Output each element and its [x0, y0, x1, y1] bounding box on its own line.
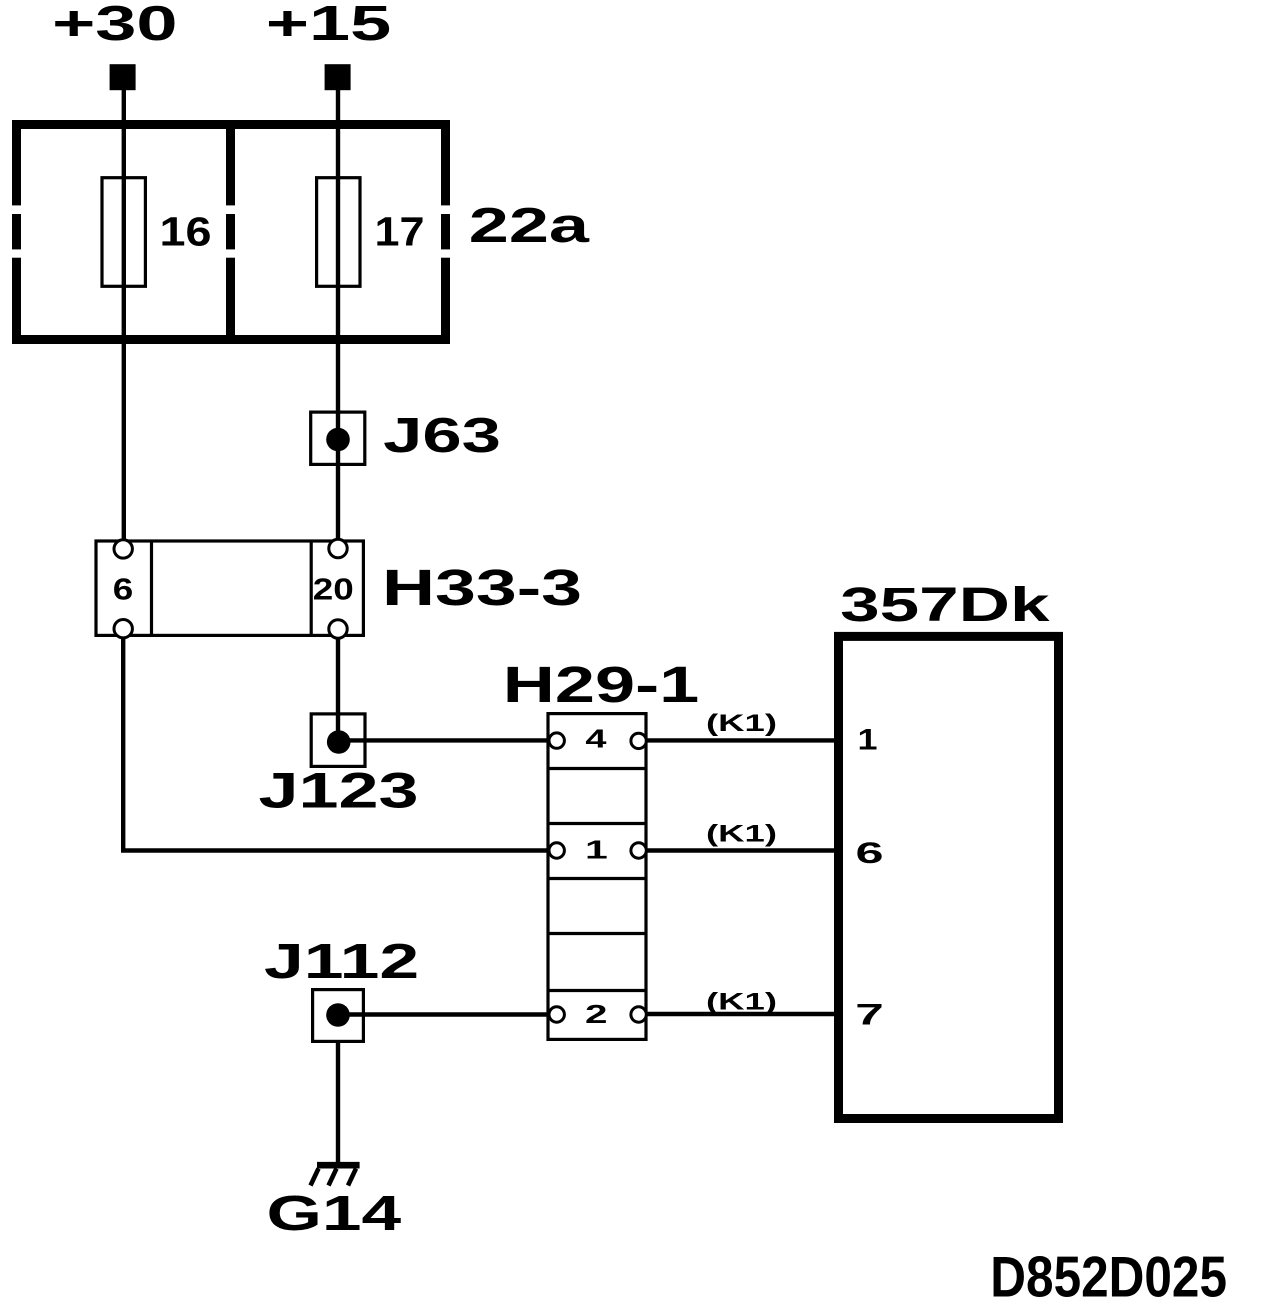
- wire J123 to H29-1 pin 4: [338, 738, 549, 742]
- H29-1 pin 1 right circle: [631, 843, 646, 858]
- svg-text:1: 1: [858, 723, 878, 756]
- svg-text:16: 16: [160, 208, 212, 254]
- svg-text:1: 1: [585, 835, 608, 865]
- H29-1 pin 4 right circle: [631, 733, 646, 748]
- wire H33-3 pin20 down to J123: [336, 638, 340, 714]
- terminal square +30: [110, 64, 136, 90]
- svg-text:7: 7: [855, 998, 884, 1031]
- connector H33-3 box: [96, 541, 363, 635]
- svg-text:17: 17: [375, 208, 425, 254]
- svg-text:G14: G14: [267, 1187, 402, 1241]
- ground symbol hatch 3: [348, 1169, 356, 1186]
- wire H29-1 pin4 to 357Dk pin1: [646, 738, 840, 742]
- svg-text:D852D025: D852D025: [990, 1246, 1227, 1306]
- H33-3 pin 20 bottom circle: [329, 620, 347, 638]
- H29-1 pin 2 right circle: [631, 1007, 646, 1022]
- svg-text:2: 2: [585, 999, 608, 1029]
- svg-text:4: 4: [585, 724, 607, 754]
- wire J112 down to ground: [336, 1041, 340, 1163]
- H29-1 row divider 5: [548, 989, 646, 992]
- svg-text:6: 6: [113, 572, 134, 607]
- H29-1 row divider 3: [548, 877, 646, 880]
- H29-1 pin 2 left circle: [549, 1007, 564, 1022]
- wire H29-1 pin1 to 357Dk pin6: [646, 848, 840, 852]
- junction J112 box: [313, 990, 364, 1042]
- wire through fuse 16 down to H33-3: [122, 122, 126, 539]
- ground symbol bar: [317, 1162, 360, 1169]
- svg-text:(K1): (K1): [706, 989, 777, 1016]
- junction J63 dot: [326, 428, 350, 452]
- fuse 16: [102, 178, 145, 287]
- svg-text:H29-1: H29-1: [503, 656, 699, 713]
- svg-text:6: 6: [856, 837, 884, 870]
- H33-3 pin 6 top circle: [114, 540, 132, 558]
- H29-1 row divider 2: [548, 822, 646, 825]
- wire from +30 terminal to fusebox: [122, 88, 126, 122]
- H29-1 pin 1 left circle: [549, 843, 564, 858]
- connector H33-3 inner divider left: [150, 541, 153, 635]
- H29-1 row divider 1: [548, 767, 646, 770]
- svg-text:357Dk: 357Dk: [840, 579, 1050, 632]
- wire H29-1 pin2 to 357Dk pin7: [646, 1012, 840, 1016]
- H29-1 row divider 4: [548, 932, 646, 935]
- junction J123 wire into box: [336, 714, 340, 742]
- H29-1 pin 4 left circle: [549, 733, 564, 748]
- connector H29-1 box: [548, 714, 646, 1040]
- svg-text:(K1): (K1): [706, 710, 777, 737]
- fuse holder box 22a (dashed border): [12, 120, 450, 344]
- svg-text:J123: J123: [259, 763, 419, 819]
- svg-text:H33-3: H33-3: [382, 559, 582, 616]
- svg-text:22a: 22a: [469, 199, 590, 253]
- H33-3 pin 20 top circle: [329, 539, 347, 557]
- junction J123 dot: [327, 730, 351, 754]
- H33-3 pin 6 bottom circle: [114, 620, 132, 638]
- junction J63 box: [311, 412, 365, 464]
- ground symbol hatch 2: [329, 1169, 337, 1186]
- fuse 17: [317, 178, 360, 287]
- junction J112 dot: [326, 1003, 350, 1027]
- wire from +15 terminal to fusebox: [336, 88, 340, 122]
- terminal square +15: [325, 64, 351, 90]
- control unit 357Dk box: [839, 636, 1059, 1118]
- svg-text:J63: J63: [383, 409, 501, 463]
- junction J63 wire through box: [336, 412, 340, 464]
- connector H33-3 inner divider right: [310, 541, 313, 635]
- ground symbol hatch 1: [311, 1169, 319, 1186]
- svg-text:+30: +30: [52, 0, 178, 51]
- junction J123 box: [311, 714, 365, 767]
- wire H33-3 pin6 down then right to H29-1 pin1: [123, 638, 549, 851]
- svg-text:J112: J112: [264, 935, 419, 989]
- wire J112 to H29-1 pin 2: [338, 1012, 549, 1016]
- wire through fuse 17 down through J63 to H33-3: [336, 122, 340, 539]
- svg-text:20: 20: [313, 572, 354, 607]
- svg-text:+15: +15: [266, 0, 391, 51]
- svg-text:(K1): (K1): [706, 820, 777, 847]
